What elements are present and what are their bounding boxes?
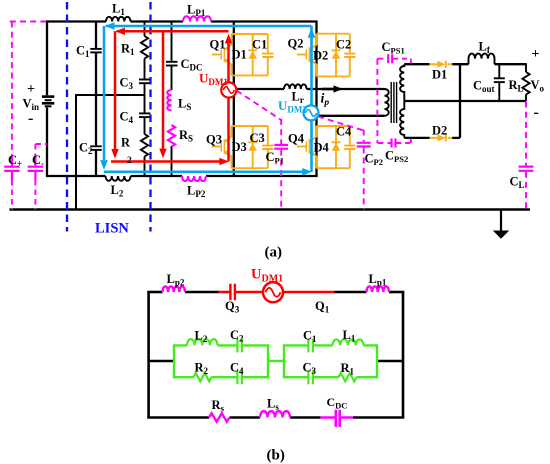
svg-text:C2: C2: [79, 141, 93, 157]
capacitor C4: [139, 113, 151, 134]
svg-text:+: +: [27, 82, 35, 97]
resistor R2: [141, 134, 148, 176]
source UDM1 (b): [263, 282, 283, 302]
svg-text:UDM1: UDM1: [199, 71, 228, 88]
ground bus: [10, 208, 531, 211]
wire red DM1 branch mid vertical: [162, 31, 165, 149]
wire secondary top tap: [404, 63, 429, 65]
diode D3 triangle: [248, 143, 257, 151]
resistor R1: [141, 22, 148, 79]
dashed wire CL to ground bus: [525, 172, 527, 210]
inductor L1 (b): [333, 339, 364, 345]
transformer secondary winding upper: [400, 64, 404, 101]
svg-text:CDC: CDC: [327, 395, 348, 411]
svg-text:Lr: Lr: [292, 90, 304, 106]
transistor Q3 (IGBT): [212, 126, 232, 168]
dashed wire C- up: [34, 144, 36, 158]
capacitor C1 (b): [308, 339, 313, 353]
bridge right leg: [315, 22, 317, 177]
dashed box top edge: [10, 21, 46, 23]
svg-text:D1: D1: [432, 68, 447, 82]
arrowhead red down (mid branch): [159, 149, 166, 159]
diode D1 (output rectifier): [430, 61, 453, 68]
capacitor C+: [4, 157, 19, 180]
wire Lf to RL: [495, 63, 527, 65]
wire cyan DM2 loop top: [106, 25, 312, 28]
inductor Lr: [284, 84, 307, 89]
wire secondary bottom tap: [404, 137, 429, 139]
svg-text:CL: CL: [510, 175, 525, 191]
svg-text:Q1: Q1: [210, 38, 226, 52]
circuit b outer left rail: [147, 292, 150, 418]
inductor L2: [106, 176, 131, 181]
capacitor C3: [139, 80, 151, 113]
wire b mid branch left stub: [149, 360, 174, 363]
svg-text:R: R: [121, 136, 131, 150]
svg-text:UDM1: UDM1: [251, 267, 283, 285]
svg-text:CPS1: CPS1: [382, 40, 405, 56]
wire D1 cathode to Lf node: [452, 63, 469, 65]
transformer primary winding: [385, 89, 389, 116]
arrowhead red down (left vertical): [111, 149, 118, 159]
capacitor CL: [519, 167, 534, 171]
svg-text:Q1: Q1: [315, 299, 330, 315]
dashed wire CP2 vertical upper: [363, 130, 365, 142]
wire rectifier output vertical: [459, 64, 461, 138]
capacitor C2 (snubber): [344, 34, 355, 77]
wire cyan DM2 loop bottom: [104, 171, 303, 174]
parallel box C1L1C3R1 outline (b): [284, 345, 377, 377]
svg-text:Rs: Rs: [212, 398, 225, 414]
svg-text:R2: R2: [195, 361, 209, 377]
wire red DM1 loop bottom: [111, 160, 220, 163]
diode D2 output triangle: [437, 134, 445, 141]
svg-text:L1: L1: [343, 328, 356, 344]
diode D2 (bridge): [332, 34, 341, 77]
svg-text:(b): (b): [267, 448, 285, 464]
snubber box Q4 top/bottom: [317, 126, 350, 168]
wire red UDM1 top stub: [227, 42, 230, 84]
svg-text:D3: D3: [232, 140, 247, 154]
wire cyan UDM2 top stub: [310, 26, 313, 106]
svg-text:C1: C1: [303, 329, 317, 345]
svg-text:C2: C2: [336, 38, 351, 52]
wire bridge mid to Lr: [234, 88, 284, 90]
inductor Ls (b): [260, 411, 290, 417]
svg-text:(a): (a): [265, 245, 283, 261]
svg-text:LP2: LP2: [187, 184, 206, 200]
capacitor CPS2: [392, 139, 396, 148]
dashed wire C- horizontal: [35, 143, 47, 145]
resistor R2 (b): [194, 373, 212, 381]
arrowhead cyan right (bottom): [302, 168, 312, 176]
parallel box L2C2R2C4 outline (b): [174, 345, 268, 377]
resistor RL: [522, 63, 529, 101]
LISN boundary dashed line left: [66, 2, 68, 232]
svg-text:2: 2: [127, 156, 132, 166]
inductor LP2: [182, 176, 206, 181]
svg-text:D4: D4: [314, 141, 330, 155]
inductor Lp1 (b): [367, 286, 389, 292]
capacitor CDC: [166, 22, 178, 91]
wire top rail left segment: [47, 20, 106, 22]
transistor Q1 (IGBT): [212, 34, 232, 75]
diode D1 output triangle: [437, 61, 445, 68]
svg-text:C+: C+: [8, 153, 22, 169]
wire Lr to transformer primary: [307, 88, 385, 90]
svg-text:Lp1: Lp1: [369, 272, 387, 288]
wire b red section right: [283, 291, 335, 294]
wire b top-left corner to Lp2: [147, 291, 162, 294]
inductor LP1: [183, 16, 211, 21]
dashed wire C- to ground bus: [34, 180, 36, 210]
transformer core: [391, 82, 396, 123]
source UDM2: [304, 105, 319, 120]
diode D4 triangle: [332, 143, 341, 151]
svg-text:C-: C-: [32, 153, 44, 169]
wire b mid branch right stub: [377, 360, 403, 363]
capacitor Cout: [494, 64, 505, 101]
wire cyan UDM2 bottom stub: [310, 120, 313, 172]
ground symbol: [500, 210, 502, 232]
wire b red section mid: [236, 291, 263, 294]
capacitor CDC (b) wire stubs: [320, 416, 353, 419]
inductor L1: [106, 17, 130, 22]
svg-text:D2: D2: [313, 49, 328, 63]
wire cyan DM2 loop left vertical: [103, 26, 106, 160]
svg-text:C1: C1: [252, 38, 267, 52]
dashed wire CPS2 right stub: [396, 139, 411, 144]
arrowhead cyan down (left vertical): [100, 160, 108, 170]
svg-text:C2: C2: [230, 328, 244, 344]
wire secondary center tap / output bottom rail: [404, 100, 526, 102]
svg-text:CP2: CP2: [365, 152, 383, 168]
capacitor CDC (b) plates: [336, 410, 340, 427]
dashed wire CPS1 right stub: [393, 59, 411, 64]
svg-text:-: -: [28, 110, 33, 127]
source UDM1 (a): [221, 82, 236, 97]
svg-text:C3: C3: [120, 76, 134, 92]
svg-text:Ls: Ls: [267, 397, 279, 413]
svg-text:Q3: Q3: [225, 299, 240, 315]
wire b bottom rail segment 2: [230, 416, 261, 419]
svg-text:C4: C4: [336, 125, 352, 139]
resistor RS: [168, 125, 175, 147]
wire b bottom rail segment 4: [353, 416, 404, 419]
svg-text:L1: L1: [112, 2, 125, 18]
capacitor C3 (snubber): [262, 126, 273, 168]
svg-text:R1: R1: [341, 361, 355, 377]
svg-text:+: +: [532, 47, 540, 62]
transistor Q2 emitter arrow: [309, 58, 315, 64]
inductor LS: [167, 90, 171, 110]
capacitor C2 (LISN): [90, 95, 101, 176]
diode D2 triangle: [332, 51, 341, 59]
svg-text:Q3: Q3: [206, 133, 222, 147]
LISN boundary dashed line right: [149, 2, 151, 232]
svg-text:RS: RS: [179, 128, 193, 144]
wire b green stub between boxes: [268, 360, 284, 362]
svg-text:C1: C1: [76, 44, 90, 60]
svg-text:C4: C4: [230, 361, 244, 377]
arrowhead cyan up (UDM2 stub): [308, 28, 316, 38]
diode D3 (bridge): [248, 126, 257, 168]
svg-text:CPS2: CPS2: [385, 149, 408, 165]
wire b Lp1 to top-right corner: [389, 291, 404, 294]
wire bottom rail mid segment: [131, 175, 182, 177]
svg-text:L2: L2: [195, 329, 208, 345]
capacitor C1 (LISN): [90, 22, 101, 96]
capacitor C1 (snubber): [262, 34, 273, 75]
capacitor CPS1: [388, 54, 392, 63]
capacitor C2 (b): [237, 339, 242, 353]
resistor R1 (b): [339, 373, 357, 381]
circuit b outer right rail: [402, 292, 405, 418]
svg-text:Cout: Cout: [473, 79, 495, 95]
transistor Q2 (IGBT): [297, 34, 317, 77]
bridge left leg: [233, 22, 235, 177]
snubber box Q1 top/bottom: [231, 34, 267, 75]
dashed wire CPS1-CPS2 left vertical: [376, 59, 378, 143]
dashed wire UDM2 to CP2 diagonal: [318, 117, 364, 131]
arrow ip: [322, 88, 334, 91]
capacitor C-: [28, 157, 43, 180]
wire b black after red to Lp1: [334, 291, 367, 294]
wire LISN vertical to ground: [75, 94, 77, 210]
svg-text:D2: D2: [432, 124, 447, 138]
wire red DM1 loop top: [117, 30, 229, 33]
arrowhead red left (top): [115, 28, 125, 35]
transistor Q3 emitter arrow: [224, 150, 230, 156]
wire red DM1 loop left vertical: [114, 31, 117, 150]
svg-text:Q4: Q4: [288, 132, 305, 146]
svg-text:-: -: [534, 104, 539, 121]
wire b Lp2 to red section: [185, 291, 219, 294]
svg-text:Lf: Lf: [479, 40, 491, 56]
inductor Lp2 (b): [163, 286, 185, 292]
svg-text:LS: LS: [178, 97, 191, 113]
svg-text:C3: C3: [250, 131, 265, 145]
arrowhead cyan left (top): [105, 22, 115, 30]
svg-text:LISN: LISN: [95, 221, 129, 237]
svg-text:C4: C4: [120, 110, 134, 126]
dashed wire C+ to ground bus: [11, 180, 13, 210]
wire primary bottom to right leg: [317, 115, 385, 117]
wire top rail mid segment: [131, 20, 184, 22]
wire red UDM1 bottom stub: [227, 97, 230, 162]
ground symbol triangle: [493, 231, 509, 239]
capacitor C4 (snubber): [344, 126, 355, 168]
arrowhead red up (UDM1 stub): [225, 34, 232, 44]
svg-text:Vo: Vo: [531, 78, 545, 94]
wire b red section left: [219, 291, 230, 294]
wire D2 cathode: [452, 137, 460, 139]
dashed wire UDM1 to CP1 diagonal: [237, 91, 282, 121]
svg-text:L2: L2: [111, 183, 124, 199]
wire b bottom rail segment 3: [290, 416, 320, 419]
wire LISN mid horizontal: [76, 94, 145, 96]
wire bottom rail left segment: [46, 175, 106, 177]
dashed box left edge: [11, 22, 13, 158]
capacitor CP2: [357, 143, 371, 147]
dashed wire CPS1 left stub: [377, 58, 387, 60]
capacitor C3 (b): [308, 370, 313, 384]
resistor Rs (b): [209, 413, 229, 421]
capacitor Q3 (b) plates: [230, 284, 235, 301]
battery Vin: [42, 20, 54, 176]
dashed wire CP1 to ground bus: [280, 150, 282, 210]
diode D4 (bridge): [332, 126, 341, 168]
svg-text:C3: C3: [303, 361, 317, 377]
capacitor CP1: [274, 145, 288, 149]
dashed wire CP2 to ground bus: [363, 147, 365, 209]
transformer secondary winding lower: [400, 101, 404, 138]
wire b bottom rail segment 1: [147, 416, 209, 419]
transistor Q1 emitter arrow: [224, 58, 230, 64]
transistor Q4 (IGBT): [297, 126, 317, 168]
wire bottom rail right segment: [206, 175, 318, 177]
svg-text:RL: RL: [509, 78, 524, 94]
snubber box Q3 top/bottom: [231, 126, 267, 168]
transistor Q4 emitter arrow: [309, 150, 315, 156]
capacitor C4 (b): [237, 370, 242, 384]
svg-text:Q2: Q2: [288, 37, 304, 51]
svg-text:D1: D1: [232, 48, 247, 62]
diode D1 triangle: [248, 51, 257, 59]
svg-text:R1: R1: [121, 42, 135, 58]
wire top rail right segment: [211, 20, 318, 22]
diode D2 (output rectifier): [430, 134, 453, 141]
dashed wire CPS2 left stub: [377, 142, 390, 144]
inductor L2 (b): [187, 339, 217, 345]
arrow ip head: [334, 85, 344, 92]
svg-text:Lp2: Lp2: [167, 272, 185, 288]
svg-text:LP1: LP1: [187, 3, 206, 19]
diode D1 (bridge): [248, 34, 257, 75]
svg-text:ip: ip: [321, 92, 330, 109]
arrowhead red right (bottom): [219, 158, 229, 165]
dashed wire CP1 vertical upper: [280, 119, 282, 144]
wire RS to bottom rail: [171, 146, 173, 176]
inductor Lf: [469, 54, 495, 65]
snubber box Q2 top/bottom: [317, 34, 350, 77]
dashed wire CL vertical upper: [525, 102, 527, 166]
